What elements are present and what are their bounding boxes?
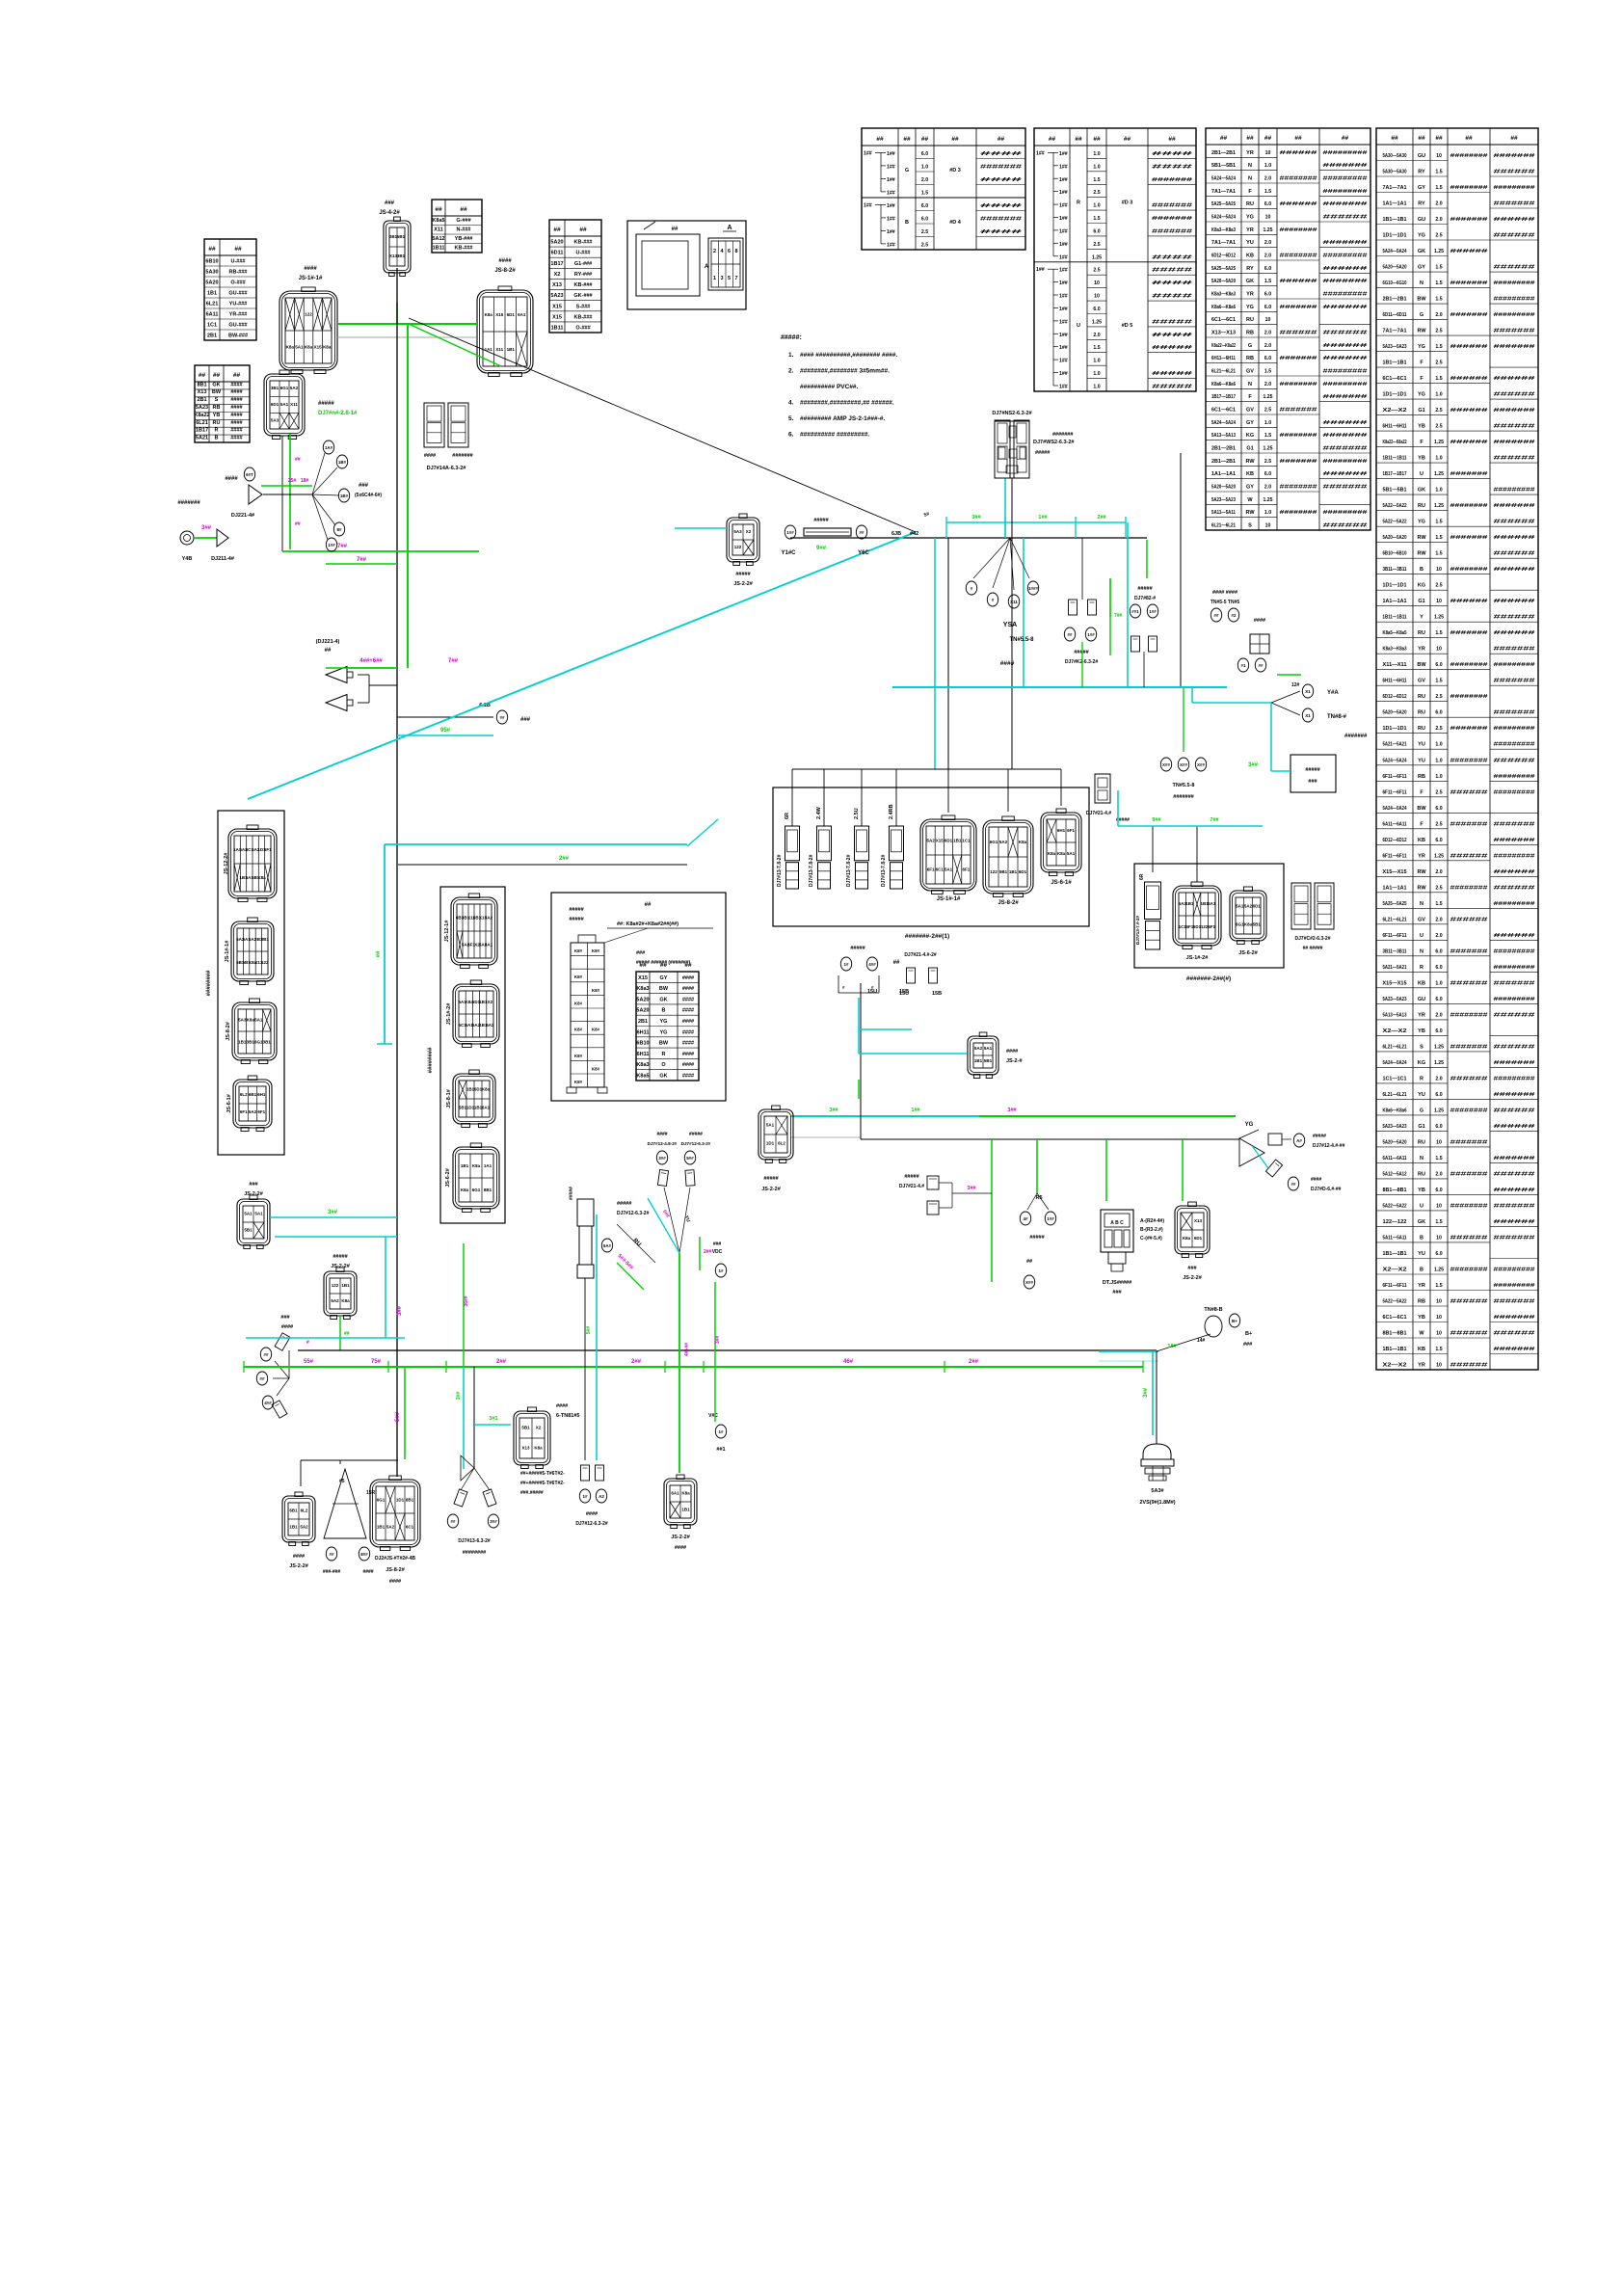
svg-text:5A24—5A24: 5A24—5A24	[1211, 215, 1236, 221]
svg-text:B: B	[1420, 1235, 1423, 1241]
svg-text:JS-2-2#: JS-2-2#	[761, 1187, 781, 1192]
wire cyan y=713 long	[892, 686, 1227, 688]
svg-text:#5: #5	[339, 1479, 345, 1484]
svg-text:2B1: 2B1	[638, 1019, 648, 1025]
svg-text:#######-2##(1): #######-2##(1)	[905, 933, 949, 940]
circle gp2	[359, 1547, 369, 1561]
svg-text:#######: #######	[452, 453, 472, 459]
svg-text:1.5: 1.5	[1435, 280, 1442, 286]
svg-text:##: ##	[325, 648, 332, 654]
svg-text:6B1: 6B1	[289, 1508, 298, 1512]
svg-text:##: ##	[672, 227, 678, 232]
plug 15B	[929, 968, 938, 983]
svg-text:3##: 3##	[490, 1519, 497, 1524]
svg-text:5A20: 5A20	[636, 997, 649, 1002]
svg-text:5B1—5B1: 5B1—5B1	[1211, 163, 1236, 169]
svg-text:95#: 95#	[440, 728, 451, 734]
svg-text:####: ####	[1000, 660, 1015, 667]
svg-text:Y: Y	[1420, 615, 1423, 621]
svg-text:1##: 1##	[1059, 385, 1068, 390]
svg-text:JS-6-1#: JS-6-1#	[1051, 880, 1072, 886]
svg-text:1###: 1###	[1028, 586, 1039, 591]
svg-text:5A13—5A13: 5A13—5A13	[1383, 1012, 1407, 1018]
svg-text:#######: #######	[1323, 446, 1368, 452]
svg-text:RU: RU	[1418, 710, 1425, 716]
svg-text:####: ####	[980, 151, 1022, 157]
svg-text:YR-###: YR-###	[229, 312, 248, 318]
svg-text:5A20—5A20: 5A20—5A20	[1383, 710, 1407, 716]
wire cyan vertical x=1170	[1127, 522, 1129, 687]
svg-text:18#: 18#	[301, 478, 309, 484]
svg-text:1.5: 1.5	[1435, 1347, 1442, 1352]
svg-text:7A1—7A1: 7A1—7A1	[1211, 189, 1236, 195]
svg-text:K8a5—K8a5: K8a5—K8a5	[1383, 630, 1407, 636]
svg-text:2.5: 2.5	[1093, 268, 1100, 274]
svg-text:K8a22: K8a22	[194, 413, 209, 418]
svg-text:1B1—1B1: 1B1—1B1	[1383, 1347, 1407, 1352]
YSA fanout lines	[973, 538, 1029, 590]
svg-text:##+#####5-T#6T#2-: ##+#####5-T#6T#2-	[520, 1471, 565, 1477]
svg-text:X1: X1	[1305, 689, 1311, 694]
svg-text:####: ####	[980, 177, 1022, 183]
svg-text:6F11—6F11: 6F11—6F11	[1383, 933, 1407, 939]
wire green x=710 vertical	[678, 1253, 680, 1473]
circle pump1	[840, 957, 851, 971]
svg-text:A: A	[727, 225, 732, 231]
svg-text:5A22—5A22: 5A22—5A22	[1383, 520, 1407, 525]
svg-text:DJ7#13-7.8-2#: DJ7#13-7.8-2#	[809, 854, 814, 887]
svg-text:#########: #########	[1494, 789, 1535, 795]
glow plug triangle bottom	[324, 1469, 376, 1538]
svg-text:YR: YR	[1418, 853, 1425, 859]
svg-text:1.25: 1.25	[1434, 440, 1444, 445]
svg-text:1.25: 1.25	[1263, 446, 1272, 452]
svg-text:#########: #########	[1494, 726, 1535, 732]
svg-text:####: ####	[1152, 280, 1192, 286]
svg-text:2.0: 2.0	[1264, 343, 1271, 349]
svg-text:#2: #2	[1231, 613, 1237, 618]
svg-text:RU: RU	[1246, 201, 1254, 207]
connector JS-6-20 in B2	[453, 1143, 499, 1213]
sensor string plugs bottom	[581, 1465, 604, 1481]
circle rb2	[1255, 658, 1265, 672]
svg-text:A-(R2#-4#): A-(R2#-4#)	[1140, 1218, 1164, 1224]
svg-text:GU: GU	[1418, 217, 1425, 223]
wire cyan y=1158	[791, 1115, 979, 1117]
svg-text:6.0: 6.0	[1435, 662, 1442, 668]
svg-text:G1: G1	[1246, 446, 1253, 452]
svg-text:YU-###: YU-###	[229, 302, 248, 307]
svg-text:6D11—6D11: 6D11—6D11	[1383, 312, 1407, 318]
svg-text:RB: RB	[1418, 774, 1425, 780]
svg-text:########: ########	[1280, 176, 1317, 182]
svg-text:######: ######	[1280, 201, 1317, 207]
svg-text:2##: 2##	[631, 1359, 642, 1365]
svg-text:1B1: 1B1	[1185, 901, 1194, 906]
svg-text:######: ######	[1494, 599, 1535, 604]
svg-text:1.25: 1.25	[1263, 227, 1272, 233]
svg-text:5A30—5A30: 5A30—5A30	[1383, 153, 1407, 159]
svg-text:#######: #######	[1450, 312, 1488, 318]
wire green main horizontal between meter connectors	[338, 323, 477, 325]
svg-text:RY-###: RY-###	[574, 272, 592, 278]
svg-text:#######: #######	[1494, 1235, 1535, 1241]
svg-text:N: N	[1420, 280, 1423, 286]
wires into groupbox2	[1118, 790, 1263, 882]
svg-text:K8a22—K8a22: K8a22—K8a22	[1211, 343, 1236, 349]
svg-text:######: ######	[1494, 933, 1535, 939]
svg-text:6C1—6C1: 6C1—6C1	[1211, 317, 1236, 323]
svg-text:######: ######	[1450, 1235, 1488, 1241]
svg-text:BW: BW	[1417, 662, 1426, 668]
svg-text:#########: #########	[1494, 997, 1535, 1002]
svg-text:######: ######	[1494, 1171, 1535, 1177]
small conn reverse buzzer	[1250, 634, 1269, 654]
svg-text:######: ######	[1450, 1076, 1488, 1081]
wire green vertical x=423	[407, 324, 409, 551]
svg-text:JS-8-2#: JS-8-2#	[226, 1022, 231, 1041]
svg-text:2.0: 2.0	[1435, 1171, 1442, 1177]
circle yg1	[1293, 1134, 1304, 1147]
svg-text:#######: #######	[1494, 1060, 1535, 1066]
svg-text:6B1: 6B1	[249, 1092, 257, 1097]
fuse 2.4RB DJ7013	[890, 826, 904, 889]
svg-text:K8a5: K8a5	[636, 1074, 649, 1080]
svg-text:####: ####	[281, 1324, 293, 1330]
svg-text:6.0: 6.0	[921, 203, 928, 209]
plug V	[1069, 600, 1078, 615]
svg-text:6.0: 6.0	[1093, 307, 1100, 312]
svg-text:6F1: 6F1	[963, 868, 971, 872]
svg-text:7A1—7A1: 7A1—7A1	[1383, 185, 1407, 191]
svg-text:DJ7#K2-6.3-2#: DJ7#K2-6.3-2#	[1065, 659, 1098, 665]
wire black vertical x=1225	[1180, 453, 1182, 687]
wire cyan vertical x=1043 relay to main	[1004, 478, 1006, 538]
svg-text:########: ########	[1450, 1108, 1488, 1113]
svg-text:N: N	[1248, 176, 1252, 182]
svg-text:DJ7#WS2-6.3-2#: DJ7#WS2-6.3-2#	[1033, 440, 1075, 445]
svg-text:VDC: VDC	[712, 1249, 723, 1255]
svg-text:C-(##-5.#): C-(##-5.#)	[1140, 1236, 1162, 1241]
svg-text:##: ##	[951, 136, 959, 143]
svg-text:RU: RU	[1246, 317, 1254, 323]
svg-text:X11: X11	[434, 227, 442, 233]
svg-text:RW: RW	[1417, 551, 1426, 557]
svg-text:1B1: 1B1	[507, 347, 516, 352]
svg-text:######: ######	[1450, 376, 1488, 382]
svg-text:36##: 36##	[464, 1295, 469, 1306]
svg-text:5B1—5B1: 5B1—5B1	[1383, 488, 1407, 494]
svg-text:2B1—2B1: 2B1—2B1	[1211, 459, 1236, 465]
svg-text:#######: #######	[1494, 821, 1535, 827]
svg-text:G: G	[1420, 1108, 1423, 1113]
svg-text:GK-###: GK-###	[573, 293, 592, 299]
svg-text:X13—X13: X13—X13	[1211, 331, 1236, 336]
svg-text:TN#5.5-8: TN#5.5-8	[1009, 637, 1034, 643]
svg-text:########: ########	[1450, 1268, 1488, 1273]
circle sf2	[256, 1372, 267, 1385]
svg-text:GY: GY	[1418, 185, 1425, 191]
svg-text:#####: #####	[689, 1132, 703, 1137]
svg-text:18#: 18#	[1167, 1344, 1176, 1349]
svg-text:#######: #######	[1494, 1156, 1535, 1161]
svg-text:1B17—1B17: 1B17—1B17	[1211, 394, 1236, 400]
svg-text:1D1: 1D1	[396, 1497, 405, 1502]
svg-text:5A20—5A20: 5A20—5A20	[1211, 279, 1236, 284]
svg-text:12#: 12#	[1291, 682, 1300, 688]
svg-text:5A2: 5A2	[249, 1109, 257, 1114]
svg-text:5A1: 5A1	[984, 1046, 993, 1051]
svg-text:BW: BW	[1417, 806, 1426, 812]
svg-text:######: ######	[1323, 305, 1368, 310]
svg-text:4##: 4##	[868, 962, 876, 967]
svg-text:RY: RY	[1418, 201, 1425, 207]
svg-text:1##: 1##	[1036, 267, 1045, 273]
wire green x=726 vert dim	[699, 1237, 701, 1270]
svg-text:10: 10	[1436, 1203, 1442, 1209]
wire green stub	[396, 303, 398, 324]
svg-text:#D 5: #D 5	[1122, 323, 1133, 329]
svg-text:1##: 1##	[864, 151, 872, 157]
svg-text:K8a3: K8a3	[636, 1062, 649, 1068]
svg-text:6H11: 6H11	[637, 1052, 650, 1057]
svg-text:1B11: 1B11	[551, 326, 564, 332]
svg-text:####: ####	[682, 1052, 694, 1057]
svg-text:6.0: 6.0	[1435, 1028, 1442, 1034]
svg-text:6F1: 6F1	[240, 1109, 248, 1114]
svg-text:##: ##	[1246, 135, 1254, 142]
svg-text:X11—X11: X11—X11	[1383, 662, 1407, 668]
svg-text:1##: 1##	[1047, 1216, 1054, 1221]
svg-text:########: ########	[1280, 433, 1317, 439]
svg-text:####: ####	[1152, 151, 1192, 157]
svg-text:G: G	[1420, 312, 1423, 318]
svg-text:DJ7#21-4.#: DJ7#21-4.#	[1086, 811, 1111, 816]
connector JS-6-10 in B1	[233, 1076, 272, 1132]
svg-text:######: ######	[1494, 1188, 1535, 1193]
svg-text:1##: 1##	[887, 229, 895, 235]
svg-text:3##: 3##	[1007, 1108, 1016, 1113]
svg-text:##: ##	[1510, 135, 1518, 142]
svg-text:#D 4: #D 4	[949, 220, 962, 226]
wire to starter connector	[675, 527, 727, 529]
notes text block	[781, 334, 897, 439]
svg-text:####: ####	[656, 1132, 667, 1137]
svg-text:JS-2-2#: JS-2-2#	[289, 1563, 308, 1569]
svg-text:#######: #######	[1494, 440, 1535, 445]
svg-text:1.5: 1.5	[921, 191, 928, 197]
YG plugs and circles	[1268, 1134, 1291, 1145]
svg-text:6L21—6L21: 6L21—6L21	[1383, 1044, 1407, 1050]
svg-text:####: ####	[1152, 294, 1192, 300]
wire green verticals near hub	[1110, 540, 1147, 617]
svg-text:JS-1#-1#: JS-1#-1#	[937, 896, 961, 902]
svg-text:####: ####	[498, 258, 512, 264]
svg-text:######: ######	[1494, 1219, 1535, 1225]
svg-text:#######: #######	[1323, 394, 1368, 400]
svg-text:######: ######	[1450, 853, 1488, 859]
svg-text:JS-8-2#: JS-8-2#	[386, 1567, 405, 1573]
svg-text:1#: 1#	[718, 1268, 724, 1273]
svg-text:RB: RB	[1246, 356, 1254, 361]
wire cyan L right	[1192, 687, 1271, 703]
svg-text:6B10—6B10: 6B10—6B10	[1383, 551, 1407, 557]
svg-text:K8#: K8#	[574, 1054, 583, 1058]
svg-text:RU: RU	[1418, 630, 1425, 636]
svg-text:#######: #######	[1450, 280, 1488, 286]
svg-text:5A24—5A24: 5A24—5A24	[1383, 806, 1407, 812]
svg-text:######: ######	[1450, 599, 1488, 604]
X7D circles trio	[1183, 687, 1184, 752]
table wire-list 1	[862, 128, 1025, 250]
svg-text:15R: 15R	[366, 1490, 376, 1496]
svg-text:1.25: 1.25	[1434, 249, 1444, 254]
svg-text:########: ########	[1280, 382, 1317, 387]
svg-text:Y1#C: Y1#C	[781, 550, 796, 556]
svg-text:######: ######	[1494, 551, 1535, 557]
svg-text:###: ###	[280, 1315, 289, 1321]
svg-text:5A21—5A21: 5A21—5A21	[1383, 742, 1407, 748]
circle X1a	[1302, 684, 1313, 698]
svg-text:#########: #########	[1323, 292, 1368, 298]
table legend 8B10	[549, 220, 601, 333]
svg-text:W: W	[1419, 1331, 1424, 1337]
svg-text:1#: 1#	[718, 1429, 724, 1434]
svg-text:K8#: K8#	[574, 1028, 583, 1032]
svg-text:N-###: N-###	[457, 227, 471, 233]
svg-text:####: ####	[1006, 1049, 1018, 1055]
svg-text:RU: RU	[1418, 1171, 1425, 1177]
svg-text:YB: YB	[1418, 1028, 1425, 1034]
svg-text:YG: YG	[1418, 233, 1425, 239]
svg-text:1D1—1D1: 1D1—1D1	[1383, 726, 1407, 732]
wire diag green arrow small	[409, 324, 501, 366]
svg-text:1B11—1B11: 1B11—1B11	[1383, 456, 1407, 462]
svg-text:X##: X##	[1025, 1280, 1034, 1285]
svg-text:1.25: 1.25	[1092, 319, 1102, 325]
svg-text:X2—X2: X2—X2	[1383, 1028, 1407, 1034]
svg-text:RU: RU	[1418, 1139, 1425, 1145]
svg-text:######: ######	[1494, 535, 1535, 541]
svg-text:5A22—5A22: 5A22—5A22	[1383, 1299, 1407, 1305]
svg-text:##: ##	[1342, 135, 1349, 142]
svg-text:8B1: 8B1	[406, 1497, 414, 1502]
svg-text:###: ###	[1308, 779, 1317, 785]
svg-text:7##: 7##	[1210, 817, 1218, 823]
svg-text:10: 10	[1436, 647, 1442, 653]
svg-text:##+#####5-T#6T#2-: ##+#####5-T#6T#2-	[520, 1481, 565, 1486]
svg-text:1A1—1A1: 1A1—1A1	[1383, 201, 1407, 207]
svg-text:5A1: 5A1	[766, 1123, 775, 1128]
svg-text:YR: YR	[1418, 647, 1425, 653]
svg-text:##: ##	[645, 902, 652, 908]
svg-text:###-###: ###-###	[323, 1569, 341, 1575]
svg-text:6G1: 6G1	[472, 1188, 481, 1192]
svg-text:X13: X13	[1194, 1218, 1203, 1223]
fuse 6R DJ7013	[785, 826, 800, 889]
connector alternator 6-TN8	[514, 1407, 550, 1469]
table wire-list 3	[1206, 128, 1370, 530]
svg-text:2.4W: 2.4W	[816, 806, 822, 819]
svg-text:1##: 1##	[1059, 164, 1068, 170]
svg-text:K8a: K8a	[1057, 851, 1066, 856]
svg-text:5A21: 5A21	[196, 436, 208, 441]
svg-text:5A13—5A13: 5A13—5A13	[1211, 433, 1236, 439]
svg-text:K8a: K8a	[257, 875, 266, 880]
svg-text:######: ######	[1323, 471, 1368, 477]
battery lug connector bottom	[1141, 1444, 1174, 1481]
svg-text:#######: #######	[1323, 240, 1368, 246]
circle DJ12	[1085, 627, 1096, 641]
svg-text:##: ##	[876, 136, 884, 143]
svg-text:1B#: 1B#	[340, 494, 349, 498]
svg-text:5A23: 5A23	[196, 405, 208, 411]
svg-text:5A24—5A24: 5A24—5A24	[1383, 249, 1407, 254]
svg-text:######: ######	[1494, 1331, 1535, 1337]
fuse 2.5U DJ7013	[855, 826, 869, 889]
svg-text:#########: #########	[1494, 312, 1535, 318]
svg-text:RY: RY	[1418, 170, 1425, 175]
svg-text:5B1: 5B1	[999, 869, 1008, 874]
svg-text:10: 10	[1436, 1139, 1442, 1145]
svg-text:S: S	[1420, 1044, 1423, 1050]
svg-text:1##: 1##	[1059, 151, 1068, 157]
svg-text:DJ7#21-4.#-2#: DJ7#21-4.#-2#	[904, 952, 937, 958]
svg-text:######: ######	[1494, 615, 1535, 621]
svg-text:5##: 5##	[686, 1156, 694, 1161]
svg-text:G: G	[1248, 343, 1252, 349]
svg-text:#####: #####	[333, 1254, 347, 1260]
svg-text:##: ##	[213, 372, 221, 379]
svg-text:X15: X15	[495, 312, 504, 317]
svg-text:6.0: 6.0	[1264, 305, 1271, 310]
svg-text:K8a: K8a	[1244, 922, 1253, 927]
svg-text:KB-###: KB-###	[574, 282, 593, 288]
svg-text:6H11—6H11: 6H11—6H11	[1211, 356, 1236, 361]
svg-text:R: R	[1420, 965, 1423, 971]
wire cyan y=1388 left	[246, 1337, 405, 1339]
connector horn JS-4-20	[384, 217, 411, 277]
svg-text:1.5: 1.5	[1435, 679, 1442, 684]
svg-text:6A11—6A11: 6A11—6A11	[1383, 821, 1407, 827]
svg-text:1.0: 1.0	[1435, 774, 1442, 780]
svg-text:DJ7#12-4.#-##: DJ7#12-4.#-##	[1313, 1143, 1345, 1149]
svg-text:#######: #######	[1494, 647, 1535, 653]
svg-text:6L21—6L21: 6L21—6L21	[1211, 369, 1236, 375]
svg-text:5A1: 5A1	[485, 942, 493, 947]
svg-text:6L2: 6L2	[301, 1508, 308, 1512]
svg-text:1##: 1##	[864, 203, 872, 209]
svg-text:K8a: K8a	[286, 345, 295, 350]
horn speaker 2	[326, 695, 353, 711]
svg-text:##1: ##1	[1131, 609, 1139, 614]
svg-text:6D1: 6D1	[507, 312, 516, 317]
svg-text:6B10: 6B10	[636, 1041, 649, 1047]
svg-text:1##: 1##	[1059, 307, 1068, 312]
svg-text:6D11: 6D11	[551, 251, 564, 256]
svg-text:1##: 1##	[1059, 228, 1068, 234]
svg-text:#######: #######	[1323, 163, 1368, 169]
svg-text:6H1: 6H1	[257, 1092, 266, 1097]
svg-text:#######: #######	[1494, 329, 1535, 334]
svg-text:##: ##	[903, 136, 911, 143]
svg-text:K8a: K8a	[305, 345, 313, 350]
svg-text:1##: 1##	[1036, 150, 1045, 156]
connector JS-12-20 in B1	[228, 825, 277, 902]
svg-text:6C1: 6C1	[406, 1524, 414, 1529]
svg-text:##: ##	[1213, 613, 1219, 618]
svg-text:5A20—5A20: 5A20—5A20	[1383, 1139, 1407, 1145]
